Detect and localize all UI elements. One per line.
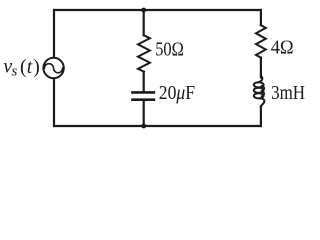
inductor 3mH exit bottom xyxy=(260,98,264,107)
inductor 3mH loop 1 xyxy=(254,82,264,87)
svg-text:3mH: 3mH xyxy=(271,82,305,104)
svg-text:t: t xyxy=(27,57,33,78)
resistor 4ohm zigzag xyxy=(256,25,266,58)
svg-text:): ) xyxy=(33,57,40,78)
source vs circle xyxy=(43,58,63,78)
wire right upper xyxy=(260,10,262,25)
wire top xyxy=(54,9,261,11)
wire middle branch lower xyxy=(143,101,145,126)
svg-text:(: ( xyxy=(20,57,27,78)
inductor 3mH hook top xyxy=(258,76,262,83)
inductor 3mH connecting arc 2 xyxy=(262,91,265,96)
wire bottom xyxy=(54,125,261,127)
wire middle between resistor and capacitor xyxy=(143,72,145,91)
capacitor 20uF top plate xyxy=(133,91,154,94)
capacitor 20uF bottom plate xyxy=(133,98,154,101)
svg-text:20μF: 20μF xyxy=(159,83,195,104)
inductor 3mH loop 3 xyxy=(254,93,264,98)
node junction top xyxy=(141,8,146,13)
wire left upper xyxy=(53,10,55,57)
wire left lower xyxy=(53,79,55,126)
svg-text:s: s xyxy=(12,64,18,80)
wire right lower xyxy=(260,107,262,127)
wire middle branch upper xyxy=(143,10,145,35)
svg-text:50Ω: 50Ω xyxy=(155,39,184,61)
svg-text:4Ω: 4Ω xyxy=(271,36,294,58)
inductor 3mH connecting arc 1 xyxy=(262,86,265,91)
inductor 3mH loop 2 xyxy=(254,88,264,93)
resistor 50ohm zigzag xyxy=(138,35,150,71)
wire right between resistor and inductor xyxy=(260,58,262,78)
source vs sine xyxy=(44,64,62,73)
node junction bottom xyxy=(141,124,146,129)
